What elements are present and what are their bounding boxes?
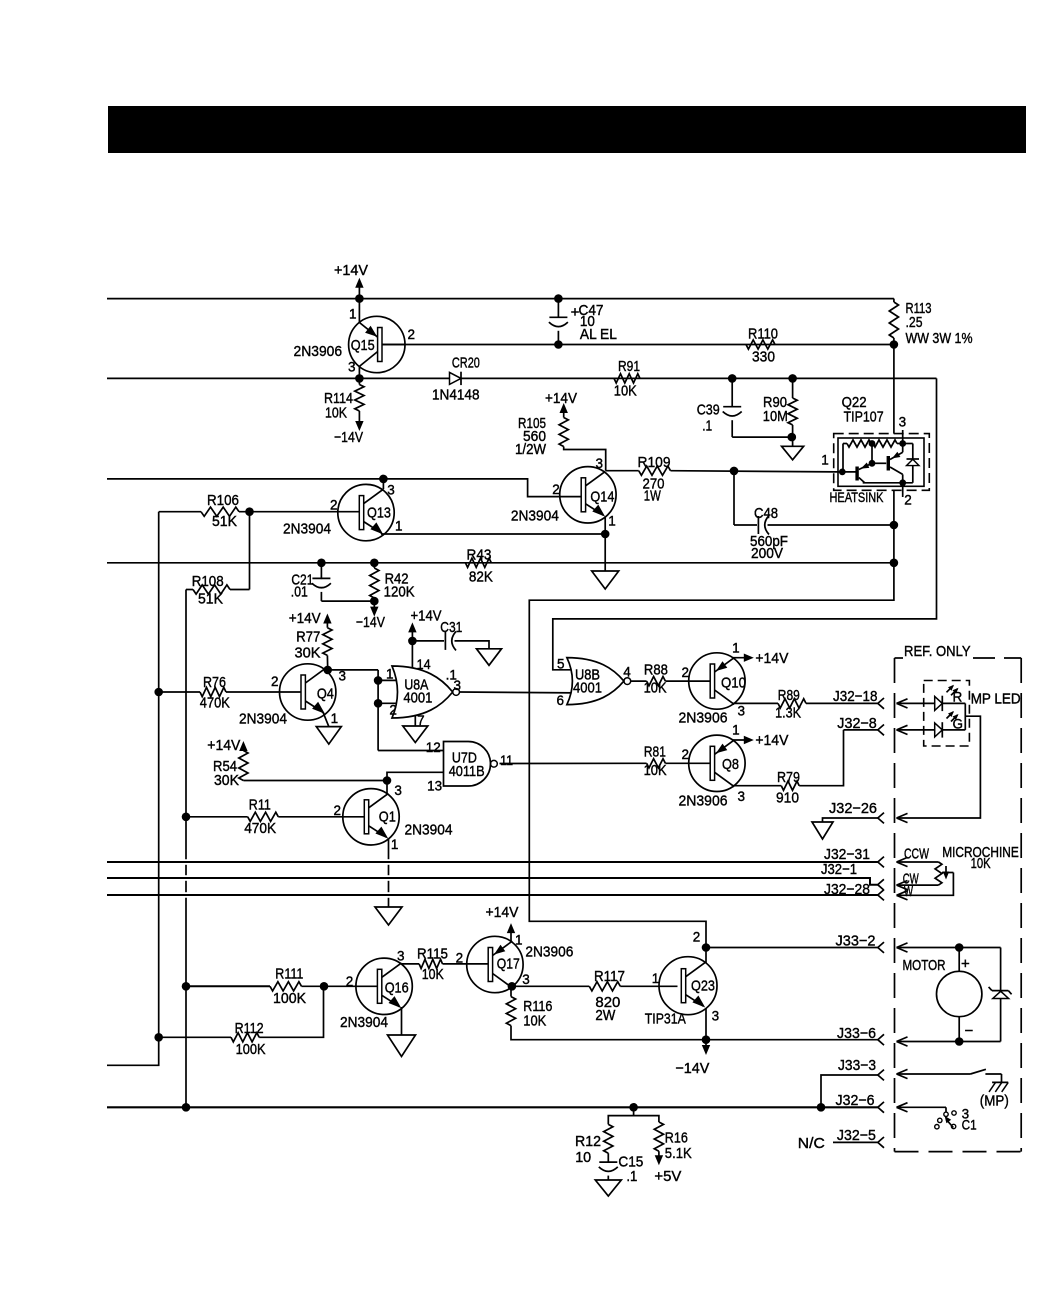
- svg-text:6: 6: [557, 693, 565, 708]
- capacitor C47: [549, 299, 617, 345]
- transistor Q17: [467, 936, 523, 992]
- junction J33-3 J32-6: [817, 1103, 826, 1112]
- diode CR20: [432, 356, 480, 404]
- svg-text:10K: 10K: [523, 1014, 546, 1030]
- ground Q1: [375, 907, 402, 925]
- svg-text:CCW: CCW: [904, 846, 929, 862]
- pin labels Q23: [652, 930, 719, 1024]
- svg-text:J32−18: J32−18: [833, 688, 878, 705]
- wire J32-28: [107, 881, 884, 900]
- svg-text:3: 3: [454, 678, 462, 693]
- junction R109 C48: [730, 467, 739, 476]
- svg-text:3: 3: [387, 483, 395, 498]
- pin 1 Q15: [349, 307, 357, 322]
- label Q16 type: [340, 1014, 388, 1031]
- junction U8A pin1: [374, 676, 399, 685]
- ground C31: [477, 649, 502, 666]
- svg-text:R81: R81: [644, 744, 666, 760]
- wire J32-5 N/C: [798, 1127, 884, 1152]
- label Q1 type: [405, 821, 453, 838]
- wire R12 R16 branch: [608, 1107, 659, 1124]
- capacitor C21: [291, 563, 375, 601]
- svg-text:−: −: [965, 1023, 974, 1040]
- svg-text:C39: C39: [697, 403, 720, 419]
- svg-text:J33−3: J33−3: [838, 1057, 876, 1074]
- svg-text:AL EL: AL EL: [580, 327, 617, 343]
- svg-text:MOTOR: MOTOR: [903, 958, 946, 974]
- svg-text:2: 2: [552, 482, 560, 497]
- svg-text:3: 3: [397, 948, 405, 963]
- pin labels Q14: [552, 456, 615, 529]
- svg-text:13: 13: [427, 779, 442, 794]
- resistor R110: [746, 327, 778, 366]
- resistor R108: [186, 574, 250, 608]
- svg-text:G: G: [953, 717, 964, 732]
- label Q4 type: [239, 711, 287, 728]
- power +14V arrow U8A pin14: [408, 608, 441, 641]
- wire R43 row: [107, 562, 894, 564]
- junction R106 R108: [245, 507, 254, 516]
- nand gate U7D: [444, 742, 498, 787]
- wire J32-8: [837, 715, 884, 735]
- wire J32-31: [107, 846, 884, 867]
- transistor Q23: [659, 957, 717, 1015]
- label Q23 type: [645, 1010, 686, 1027]
- svg-text:2N3904: 2N3904: [340, 1014, 388, 1031]
- svg-text:+5V: +5V: [654, 1168, 681, 1185]
- svg-text:120K: 120K: [384, 584, 415, 600]
- wire Q15 base row: [382, 344, 894, 346]
- svg-text:1: 1: [652, 971, 660, 986]
- pin labels Q8: [682, 722, 746, 804]
- svg-text:10K: 10K: [971, 856, 991, 872]
- svg-text:2: 2: [271, 674, 279, 689]
- wire Q16 emitter: [401, 1007, 403, 1035]
- junction R112 rail: [154, 1033, 163, 1042]
- wire Q10 collector: [733, 702, 778, 704]
- wire U8A out to U8B pin6: [460, 691, 576, 694]
- label Q8 type: [679, 792, 728, 809]
- svg-text:R106: R106: [207, 493, 239, 509]
- power +14V arrow Q15: [334, 262, 368, 299]
- resistor R88: [644, 663, 711, 697]
- svg-text:J33−6: J33−6: [837, 1025, 876, 1042]
- junction R12 R16 tap: [629, 1103, 638, 1112]
- pin labels Q4: [271, 669, 346, 727]
- transistor Q14: [560, 467, 616, 523]
- wire Q16 collector: [402, 963, 419, 965]
- svg-text:R77: R77: [296, 630, 320, 646]
- pin labels U8A: [386, 657, 461, 728]
- capacitor C15: [599, 1153, 644, 1185]
- wire J32-26: [823, 800, 885, 823]
- wire J33-2: [706, 933, 884, 953]
- svg-text:2: 2: [389, 703, 397, 718]
- svg-text:J32−1: J32−1: [821, 861, 857, 878]
- wire Q15 collector row: [107, 377, 937, 379]
- resistor R115: [417, 946, 489, 983]
- svg-text:.01: .01: [291, 584, 308, 600]
- junction R90 bottom: [788, 433, 797, 442]
- junction rail B J32-6: [182, 1103, 191, 1112]
- ground Q14: [592, 534, 619, 589]
- transistor Q16: [356, 958, 412, 1014]
- svg-text:R12: R12: [575, 1134, 601, 1150]
- pin labels Q13: [330, 483, 403, 534]
- svg-text:J32−5: J32−5: [837, 1127, 876, 1144]
- svg-text:3: 3: [596, 456, 604, 471]
- junction C21 top: [317, 559, 326, 568]
- svg-text:10M: 10M: [763, 409, 788, 425]
- svg-text:TIP107: TIP107: [844, 410, 884, 426]
- pin 2 Q15: [408, 327, 416, 342]
- ground Q4: [316, 712, 341, 744]
- svg-text:2N3906: 2N3906: [525, 943, 573, 960]
- svg-text:4011B: 4011B: [449, 764, 485, 780]
- svg-text:CR20: CR20: [452, 356, 480, 372]
- resistor R77: [295, 628, 333, 670]
- svg-text:1: 1: [386, 667, 394, 682]
- transistor Q1: [343, 789, 399, 845]
- svg-text:2: 2: [904, 493, 912, 508]
- svg-text:470K: 470K: [200, 696, 230, 712]
- pin 3 Q15: [348, 360, 356, 375]
- svg-text:R91: R91: [618, 359, 640, 375]
- svg-text:J32−26: J32−26: [829, 800, 877, 817]
- junction R42 top: [370, 559, 379, 568]
- svg-text:100K: 100K: [273, 991, 306, 1007]
- svg-text:Q23: Q23: [691, 979, 715, 995]
- svg-text:10K: 10K: [325, 406, 347, 422]
- label Q17 type: [525, 943, 573, 960]
- svg-text:2: 2: [334, 803, 342, 818]
- svg-text:+14V: +14V: [289, 610, 321, 627]
- resistor R117: [589, 969, 677, 1024]
- transistor Q15: [349, 316, 405, 372]
- svg-text:2N3904: 2N3904: [511, 508, 559, 525]
- svg-text:R79: R79: [777, 770, 800, 786]
- svg-text:Q15: Q15: [351, 338, 375, 354]
- svg-text:+14V: +14V: [486, 904, 519, 921]
- svg-text:1: 1: [395, 519, 403, 534]
- svg-text:2N3904: 2N3904: [405, 821, 453, 838]
- svg-text:Q13: Q13: [367, 506, 391, 522]
- svg-text:1: 1: [331, 711, 339, 726]
- power +14V arrow R54: [207, 737, 247, 754]
- wire U7D out: [500, 762, 647, 764]
- svg-text:1.3K: 1.3K: [775, 706, 801, 722]
- wire J33-3: [821, 1057, 884, 1107]
- pin labels Q17: [456, 932, 530, 987]
- junction R111 R112: [320, 982, 329, 991]
- label Q13 type: [283, 521, 331, 538]
- svg-text:1: 1: [732, 722, 740, 737]
- svg-text:1: 1: [608, 514, 616, 529]
- power -14V arrow R114: [334, 417, 364, 446]
- svg-text:C1: C1: [962, 1117, 977, 1132]
- svg-text:+14V: +14V: [334, 262, 368, 279]
- junction R113 bottom: [890, 340, 899, 349]
- switch MP: [897, 1069, 1009, 1109]
- wire +14V top rail: [107, 298, 894, 300]
- wire R106 to R108: [249, 512, 251, 590]
- resistor R113: [889, 299, 972, 347]
- svg-text:R: R: [953, 690, 963, 705]
- svg-text:1/2W: 1/2W: [515, 442, 546, 458]
- svg-text:−14V: −14V: [334, 429, 363, 446]
- resistor R11: [186, 798, 365, 838]
- svg-text:2N3906: 2N3906: [679, 792, 728, 809]
- wire U8A pin14: [408, 637, 417, 670]
- capacitor C48: [734, 471, 894, 562]
- box LED dashed: [924, 681, 970, 747]
- wire LED common to J32-26: [897, 703, 981, 822]
- svg-text:5.1K: 5.1K: [665, 1146, 692, 1162]
- ground U8A pin7: [403, 716, 428, 743]
- svg-text:3: 3: [899, 415, 907, 430]
- svg-text:11: 11: [500, 753, 513, 768]
- svg-text:J32−8: J32−8: [837, 715, 877, 732]
- wire Q23 collector emitter stubs: [705, 948, 707, 1040]
- svg-text:2W: 2W: [595, 1008, 615, 1024]
- wire Q1 emitter: [388, 839, 390, 907]
- svg-text:1: 1: [515, 932, 523, 947]
- diode motor clamp: [989, 948, 1012, 1042]
- resistor R116: [506, 986, 706, 1039]
- svg-text:Q8: Q8: [722, 757, 739, 773]
- junction Q17 collector: [508, 982, 517, 991]
- nor gate U8B: [567, 658, 631, 705]
- ground Q16: [388, 1035, 416, 1057]
- svg-text:1: 1: [349, 307, 357, 322]
- svg-text:R111: R111: [275, 967, 303, 983]
- LED R: [897, 685, 966, 711]
- junction Q4 collector R77: [323, 666, 332, 675]
- power -14V arrow Q23: [675, 1040, 710, 1077]
- svg-text:N/C: N/C: [798, 1135, 825, 1152]
- power +14V arrow Q10: [733, 650, 788, 667]
- pin labels U7D: [426, 740, 513, 794]
- power +14V arrow R77: [289, 610, 332, 628]
- svg-text:1N4148: 1N4148: [432, 388, 480, 404]
- svg-text:1: 1: [391, 837, 399, 852]
- resistor R112: [159, 986, 324, 1058]
- wire Q13 collector stub: [382, 479, 384, 489]
- svg-text:1: 1: [732, 640, 740, 655]
- resistor R90: [763, 378, 797, 437]
- svg-text:J32−6: J32−6: [836, 1092, 875, 1109]
- svg-text:Q17: Q17: [497, 957, 520, 973]
- svg-text:.25: .25: [906, 315, 923, 331]
- svg-text:MP LED: MP LED: [971, 691, 1021, 707]
- junction Q13 collector: [379, 475, 388, 484]
- label Q15 type: [294, 343, 343, 360]
- transistor Q8: [689, 735, 745, 791]
- svg-text:Q4: Q4: [317, 687, 334, 703]
- junction R76 rail: [154, 688, 163, 697]
- svg-text:R16: R16: [665, 1131, 688, 1147]
- junction R42 bottom: [370, 597, 379, 606]
- svg-text:+14V: +14V: [207, 737, 240, 754]
- resistor R43: [465, 548, 493, 586]
- resistor R91: [614, 359, 640, 400]
- resistor R16: [654, 1122, 692, 1162]
- junction C47: [554, 294, 563, 349]
- ground R90: [782, 437, 804, 460]
- svg-text:5: 5: [557, 657, 565, 672]
- svg-text:3: 3: [522, 972, 530, 987]
- wire J32-18: [833, 688, 884, 709]
- svg-text:2: 2: [330, 497, 338, 512]
- svg-text:R115: R115: [417, 946, 448, 962]
- resistor R114: [324, 378, 364, 421]
- svg-text:1: 1: [821, 453, 829, 468]
- svg-text:14: 14: [417, 657, 431, 672]
- svg-text:51K: 51K: [198, 592, 223, 608]
- svg-text:R89: R89: [778, 688, 800, 704]
- svg-text:C48: C48: [754, 506, 778, 522]
- svg-text:2: 2: [456, 951, 464, 966]
- junction Q23 emitter J33-6: [702, 1035, 711, 1044]
- svg-text:+14V: +14V: [755, 732, 788, 749]
- svg-text:Q14: Q14: [590, 490, 614, 506]
- power +5V arrow R16: [654, 1151, 681, 1185]
- resistor R76: [159, 675, 301, 712]
- svg-text:R112: R112: [235, 1021, 264, 1037]
- transistor Q22 TIP107: [821, 395, 929, 507]
- svg-text:WW 3W 1%: WW 3W 1%: [906, 331, 973, 347]
- svg-text:R116: R116: [523, 999, 552, 1015]
- svg-text:Q16: Q16: [385, 981, 409, 997]
- svg-text:4001: 4001: [573, 680, 602, 696]
- svg-text:+: +: [961, 956, 970, 973]
- wire J32-1: [107, 861, 884, 890]
- wire left rail A: [107, 512, 159, 1066]
- junction Q15 collector: [355, 374, 364, 383]
- svg-text:200V: 200V: [751, 546, 783, 562]
- wire Q22 pin1: [836, 469, 856, 476]
- svg-text:C31: C31: [440, 620, 462, 636]
- wire U7D pin13: [387, 772, 444, 780]
- box REF ONLY: [895, 644, 1022, 1152]
- svg-text:Q1: Q1: [379, 810, 396, 826]
- svg-text:3: 3: [738, 789, 746, 804]
- junction R11 rail: [182, 813, 191, 822]
- title bar: [108, 106, 1026, 153]
- junction C39 R90 top: [728, 374, 797, 383]
- resistor R79: [776, 730, 844, 807]
- resistor R81: [644, 744, 711, 779]
- pin labels Q10: [682, 640, 746, 718]
- svg-text:3: 3: [712, 1009, 720, 1024]
- svg-text:R110: R110: [748, 327, 778, 343]
- svg-text:R117: R117: [594, 969, 625, 985]
- svg-text:2: 2: [693, 930, 701, 945]
- junction R111 rail: [182, 982, 191, 991]
- label MP LED: [971, 691, 1021, 707]
- transistor Q13: [338, 484, 394, 540]
- wire right rail to motor drive: [529, 345, 894, 948]
- wire U7D pin12: [378, 750, 443, 752]
- resistor R105: [515, 416, 606, 471]
- svg-text:R43: R43: [467, 548, 492, 564]
- svg-text:Q10: Q10: [721, 676, 746, 692]
- LED G: [897, 711, 966, 738]
- junction Q15 emitter: [355, 294, 364, 303]
- motor M1: [897, 943, 1001, 1046]
- transistor Q10: [689, 653, 746, 709]
- transistor Q4: [280, 664, 336, 720]
- svg-text:.1: .1: [626, 1169, 637, 1185]
- svg-text:+14V: +14V: [545, 390, 577, 407]
- junction R43 row right: [890, 559, 899, 568]
- resistor R89: [775, 688, 878, 722]
- svg-text:R88: R88: [644, 663, 668, 679]
- svg-text:4: 4: [623, 665, 631, 680]
- svg-text:TIP31A: TIP31A: [645, 1010, 686, 1027]
- op-amp U8A: [392, 666, 460, 718]
- resistor R106: [159, 493, 359, 530]
- resistor R42: [370, 563, 415, 601]
- wire Q17 to R117: [512, 985, 589, 987]
- svg-text:30K: 30K: [295, 646, 321, 662]
- svg-text:1W: 1W: [644, 489, 661, 505]
- svg-text:51K: 51K: [212, 514, 237, 530]
- junction C48 right: [890, 521, 899, 530]
- svg-text:HEATSINK: HEATSINK: [830, 489, 885, 505]
- resistor R54: [213, 751, 248, 790]
- svg-text:3: 3: [348, 360, 356, 375]
- junction Q23 collector J33-2: [702, 943, 711, 952]
- wire Q13 emitter to Q14 emitter: [381, 533, 605, 535]
- wire U8B out: [631, 680, 647, 682]
- svg-text:2: 2: [682, 747, 690, 762]
- svg-text:2N3904: 2N3904: [239, 711, 287, 728]
- svg-text:−14V: −14V: [356, 614, 385, 631]
- switch C1: [897, 1103, 977, 1133]
- svg-text:2N3904: 2N3904: [283, 521, 331, 538]
- wire J33-6: [706, 1025, 884, 1045]
- junction U8A pin2: [374, 699, 399, 708]
- wire J32-6: [107, 1092, 884, 1113]
- power +14V arrow Q17: [486, 904, 519, 942]
- svg-text:R108: R108: [192, 574, 224, 590]
- wire R54 to Q1 collector: [243, 776, 391, 785]
- svg-text:3: 3: [738, 704, 746, 719]
- label Q10 type: [679, 710, 728, 727]
- wire Q15 collector stub: [358, 366, 360, 378]
- power +14V arrow R105: [545, 390, 577, 418]
- wire Q4 collector stub: [325, 669, 328, 670]
- resistor R111: [186, 967, 379, 1007]
- power +14V arrow Q8: [733, 732, 788, 749]
- capacitor C31: [412, 620, 489, 650]
- wire Q4 to U8A inputs: [328, 670, 378, 751]
- wire Q14 emitter stub: [604, 518, 606, 535]
- wire Q8 collector: [733, 785, 781, 787]
- svg-text:330: 330: [752, 350, 775, 366]
- svg-text:2: 2: [682, 665, 690, 680]
- label Q14 type: [511, 508, 559, 525]
- svg-text:2: 2: [346, 974, 354, 989]
- svg-text:−14V: −14V: [675, 1060, 709, 1077]
- pin labels Q1: [334, 783, 402, 852]
- pin labels Q16: [346, 948, 405, 989]
- svg-text:+14V: +14V: [755, 650, 788, 667]
- wire Q13 collector to Q14 base: [107, 479, 581, 497]
- svg-text:10: 10: [575, 1150, 591, 1166]
- resistor R12: [575, 1124, 613, 1166]
